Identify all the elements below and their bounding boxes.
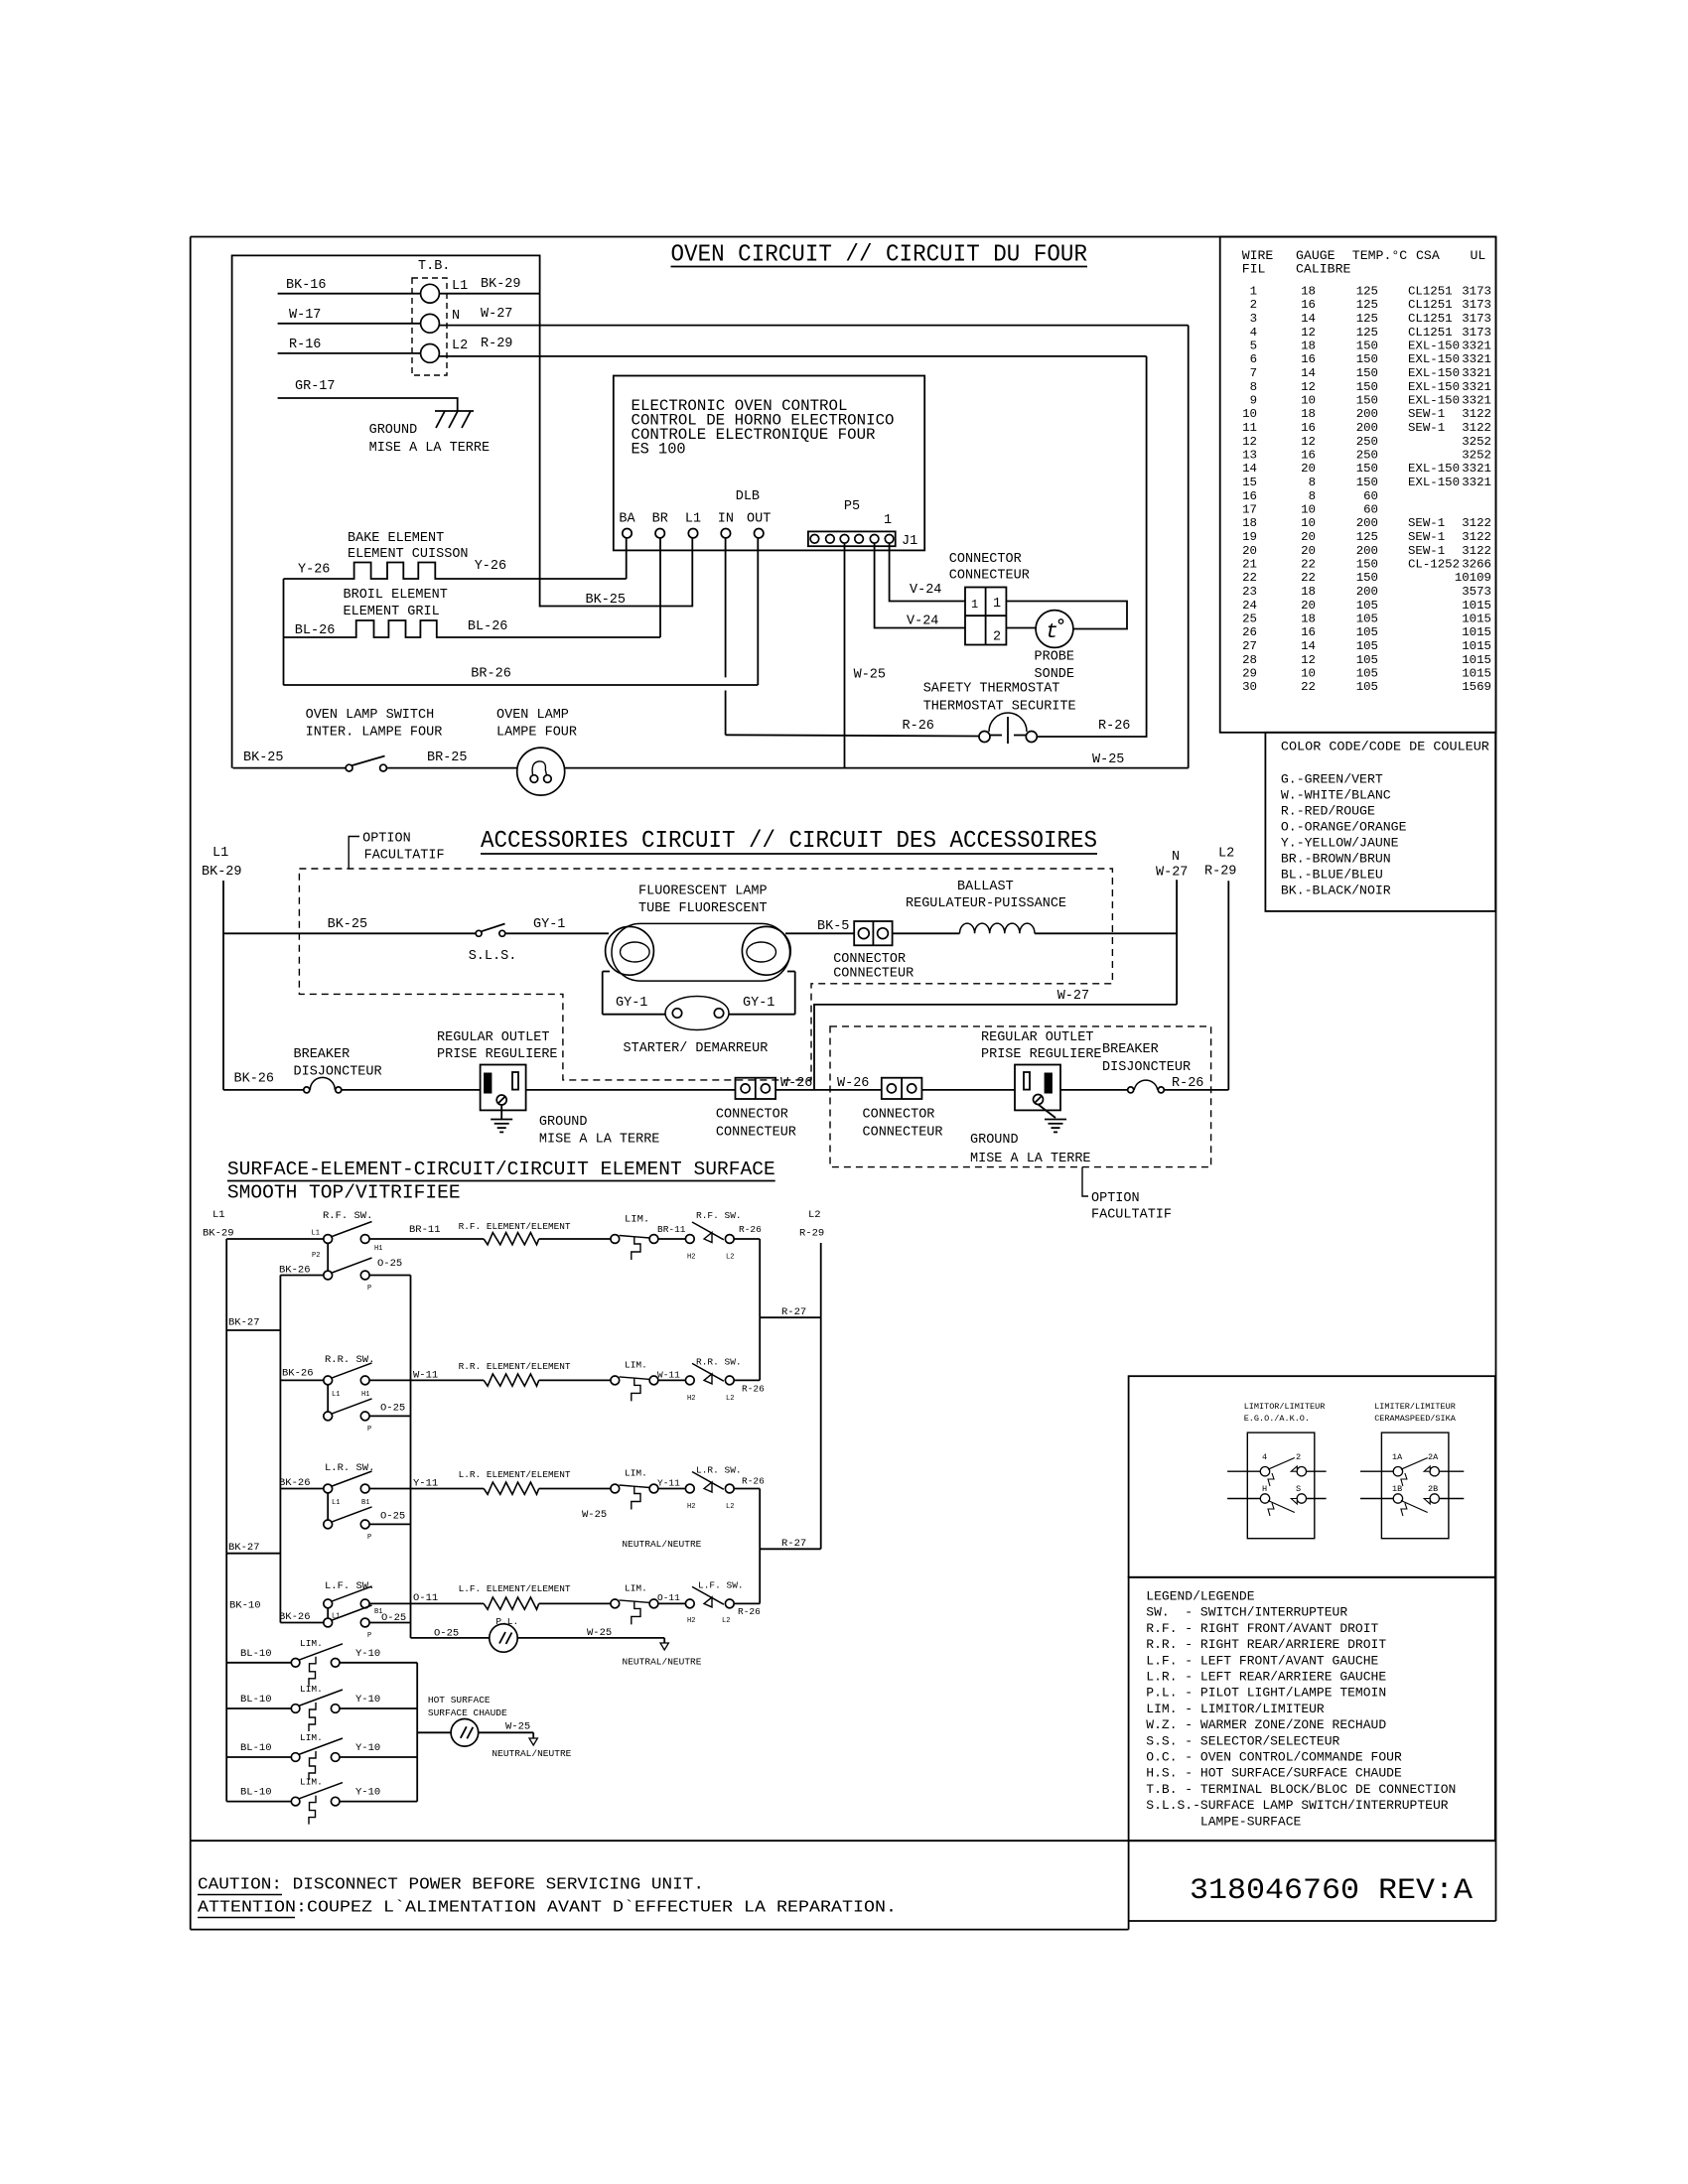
svg-text:12: 12 <box>1301 380 1316 394</box>
svg-text:L1: L1 <box>312 1230 320 1238</box>
svg-text:BAKE ELEMENT: BAKE ELEMENT <box>348 531 444 546</box>
svg-text:318046760 REV:A: 318046760 REV:A <box>1190 1874 1473 1908</box>
svg-text:22: 22 <box>1301 558 1316 572</box>
svg-text:7: 7 <box>1250 366 1257 380</box>
svg-text:CL-1252: CL-1252 <box>1408 558 1460 572</box>
wire BK-26 bus <box>279 1276 281 1623</box>
ground symbol <box>435 410 474 412</box>
svg-text:LIM.: LIM. <box>625 1583 647 1594</box>
svg-text:1015: 1015 <box>1462 639 1491 653</box>
svg-text:ACCESSORIES CIRCUIT // CIRCUIT: ACCESSORIES CIRCUIT // CIRCUIT DES ACCES… <box>481 828 1097 855</box>
dashed option box right <box>830 1026 1211 1167</box>
svg-text:14: 14 <box>1301 639 1316 653</box>
svg-text:BL-26: BL-26 <box>295 623 336 638</box>
svg-text:L1: L1 <box>212 1209 225 1221</box>
svg-text:S: S <box>1296 1484 1301 1494</box>
svg-text:EXL-150: EXL-150 <box>1408 380 1460 394</box>
svg-text:BL-26: BL-26 <box>468 619 508 634</box>
svg-text:SONDE: SONDE <box>1035 667 1075 682</box>
limiter contact <box>611 1484 620 1493</box>
wire element to limiter L.F. <box>539 1602 611 1604</box>
svg-text:EXL-150: EXL-150 <box>1408 366 1460 380</box>
svg-text:125: 125 <box>1356 326 1378 340</box>
dashed option boundary <box>299 869 1112 1080</box>
svg-text:BR.-BROWN/BRUN: BR.-BROWN/BRUN <box>1281 852 1391 867</box>
svg-text:TEMP.°C: TEMP.°C <box>1352 248 1407 263</box>
svg-text:t: t <box>1046 621 1058 644</box>
svg-text:150: 150 <box>1356 352 1378 366</box>
svg-text:8: 8 <box>1250 380 1257 394</box>
svg-text:105: 105 <box>1356 667 1378 681</box>
wire BL-26 to BR terminal <box>659 538 661 637</box>
svg-text:R.R. - RIGHT REAR/ARRIERE DROI: R.R. - RIGHT REAR/ARRIERE DROIT <box>1146 1637 1386 1652</box>
svg-text:10: 10 <box>1301 503 1316 517</box>
svg-text:105: 105 <box>1356 625 1378 639</box>
terminal L2 <box>421 344 440 363</box>
svg-text:EXL-150: EXL-150 <box>1408 352 1460 366</box>
svg-text:LIM.: LIM. <box>300 1638 323 1649</box>
svg-text:BK-27: BK-27 <box>228 1317 260 1329</box>
svg-text:Y.-YELLOW/JAUNE: Y.-YELLOW/JAUNE <box>1281 836 1399 851</box>
regular outlet left <box>481 1065 526 1111</box>
resistor R.F. element <box>484 1233 539 1245</box>
svg-text:LIM.: LIM. <box>300 1684 323 1695</box>
svg-text:S.S. - SELECTOR/SELECTEUR: S.S. - SELECTOR/SELECTEUR <box>1146 1733 1339 1748</box>
svg-text:200: 200 <box>1356 516 1378 530</box>
svg-text:150: 150 <box>1356 476 1378 489</box>
svg-text:GR-17: GR-17 <box>295 379 336 394</box>
svg-text:105: 105 <box>1356 599 1378 613</box>
svg-text:Y-10: Y-10 <box>355 1648 380 1660</box>
svg-text:12: 12 <box>1301 435 1316 449</box>
svg-text:LIM.: LIM. <box>300 1732 323 1743</box>
svg-text:EXL-150: EXL-150 <box>1408 340 1460 353</box>
limiter component EGO <box>1247 1433 1315 1539</box>
svg-text:BK-29: BK-29 <box>203 1228 234 1240</box>
svg-text:3122: 3122 <box>1462 530 1491 544</box>
svg-text:L2: L2 <box>1218 847 1234 862</box>
wire element to limiter R.R. <box>539 1379 611 1381</box>
svg-text:BK-29: BK-29 <box>481 277 521 292</box>
svg-text:T.B.: T.B. <box>418 259 450 274</box>
svg-text:OVEN LAMP: OVEN LAMP <box>496 708 569 723</box>
svg-text:GY-1: GY-1 <box>616 996 647 1011</box>
svg-text:150: 150 <box>1356 394 1378 408</box>
breaker right <box>1128 1087 1134 1093</box>
svg-text:H1: H1 <box>374 1245 382 1253</box>
svg-text:10: 10 <box>1242 407 1257 421</box>
svg-text:O-11: O-11 <box>657 1592 680 1603</box>
svg-text:BK-26: BK-26 <box>234 1072 275 1087</box>
svg-text:O.-ORANGE/ORANGE: O.-ORANGE/ORANGE <box>1281 820 1407 835</box>
svg-text:BR: BR <box>652 512 668 527</box>
svg-text:3321: 3321 <box>1462 394 1491 408</box>
svg-text:CONNECTOR: CONNECTOR <box>949 552 1022 567</box>
svg-text:O-25: O-25 <box>380 1403 405 1415</box>
wire R-29 bus surface <box>820 1243 822 1549</box>
safety thermostat <box>989 713 1027 732</box>
svg-text:W-26: W-26 <box>837 1076 869 1091</box>
svg-text:CL1251: CL1251 <box>1408 285 1453 299</box>
svg-text:R.F. SW.: R.F. SW. <box>696 1210 742 1221</box>
svg-text:SURFACE CHAUDE: SURFACE CHAUDE <box>428 1707 507 1718</box>
svg-text:CONNECTEUR: CONNECTEUR <box>833 967 914 982</box>
switch R.F. P <box>324 1271 333 1280</box>
svg-text:L1: L1 <box>685 512 701 527</box>
svg-text:L.R. ELEMENT/ELEMENT: L.R. ELEMENT/ELEMENT <box>459 1469 571 1480</box>
svg-text:19: 19 <box>1242 530 1257 544</box>
svg-text:PRISE REGULIERE: PRISE REGULIERE <box>981 1047 1102 1062</box>
svg-text:3321: 3321 <box>1462 476 1491 489</box>
wire to connector W-26 <box>526 1089 736 1091</box>
svg-text:3122: 3122 <box>1462 421 1491 435</box>
svg-text:LIM.: LIM. <box>625 1468 647 1479</box>
svg-text:16: 16 <box>1301 352 1316 366</box>
svg-text:Y-26: Y-26 <box>298 562 330 577</box>
svg-text:L2: L2 <box>808 1209 821 1221</box>
svg-text:150: 150 <box>1356 558 1378 572</box>
svg-text:H2: H2 <box>687 1617 695 1625</box>
svg-text:15: 15 <box>1242 476 1257 489</box>
svg-text:18: 18 <box>1301 285 1316 299</box>
svg-text:ELEMENT CUISSON: ELEMENT CUISSON <box>348 547 469 562</box>
svg-text:3252: 3252 <box>1462 435 1491 449</box>
resistor L.R. element <box>484 1482 539 1494</box>
svg-text:R-26: R-26 <box>742 1476 765 1487</box>
svg-text:R.F. ELEMENT/ELEMENT: R.F. ELEMENT/ELEMENT <box>459 1221 571 1232</box>
svg-text:13: 13 <box>1242 449 1257 463</box>
svg-text:18: 18 <box>1301 585 1316 599</box>
svg-text:3173: 3173 <box>1462 326 1491 340</box>
svg-text:NEUTRAL/NEUTRE: NEUTRAL/NEUTRE <box>623 1657 702 1668</box>
svg-text:BREAKER: BREAKER <box>294 1047 351 1062</box>
svg-text:1: 1 <box>993 597 1001 612</box>
wire L.F. L1-P link <box>327 1608 329 1618</box>
svg-text:TUBE FLUORESCENT: TUBE FLUORESCENT <box>638 901 768 916</box>
svg-text:H2: H2 <box>687 1503 695 1511</box>
wire Y-26 to BA terminal <box>626 538 628 579</box>
svg-text:N: N <box>1172 850 1180 865</box>
svg-text:BL.-BLUE/BLEU: BL.-BLUE/BLEU <box>1281 868 1383 883</box>
svg-text:105: 105 <box>1356 653 1378 667</box>
svg-text:14: 14 <box>1242 462 1257 476</box>
wire L.R. P to O-25 bus <box>369 1523 410 1525</box>
switch L.F. upper <box>324 1599 333 1608</box>
svg-text:12: 12 <box>1242 435 1257 449</box>
svg-text:GROUND: GROUND <box>539 1115 588 1130</box>
svg-text:18: 18 <box>1301 407 1316 421</box>
svg-text:R.R. SW.: R.R. SW. <box>696 1357 742 1368</box>
svg-text:BL-10: BL-10 <box>240 1694 272 1706</box>
svg-text:ELEMENT GRIL: ELEMENT GRIL <box>344 605 440 619</box>
svg-text:P5: P5 <box>844 499 860 514</box>
svg-text:3321: 3321 <box>1462 462 1491 476</box>
svg-text:3: 3 <box>1250 312 1257 326</box>
svg-text:125: 125 <box>1356 285 1378 299</box>
svg-text:1015: 1015 <box>1462 625 1491 639</box>
wire to right outlet <box>921 1089 1015 1091</box>
label OPTION top <box>349 837 359 870</box>
switch right contacts <box>685 1376 694 1385</box>
wire ballast to W-27 <box>1035 932 1177 934</box>
svg-text:2: 2 <box>1250 298 1257 312</box>
svg-text:R.F. SW.: R.F. SW. <box>323 1210 372 1222</box>
svg-text:150: 150 <box>1356 366 1378 380</box>
svg-text:L2: L2 <box>726 1254 734 1262</box>
svg-text:16: 16 <box>1242 489 1257 503</box>
svg-text:R-26: R-26 <box>1172 1076 1203 1091</box>
svg-text:16: 16 <box>1301 625 1316 639</box>
svg-text:10: 10 <box>1301 394 1316 408</box>
svg-text:200: 200 <box>1356 421 1378 435</box>
svg-text:L.F. SW.: L.F. SW. <box>698 1580 744 1591</box>
svg-text:3173: 3173 <box>1462 285 1491 299</box>
svg-text:J1: J1 <box>902 534 917 549</box>
svg-text:1015: 1015 <box>1462 667 1491 681</box>
svg-text:CL1251: CL1251 <box>1408 298 1453 312</box>
svg-text:150: 150 <box>1356 340 1378 353</box>
wire element to limiter L.R. <box>539 1488 611 1490</box>
svg-text:BK-29: BK-29 <box>202 865 242 880</box>
svg-text:10: 10 <box>1301 667 1316 681</box>
svg-text:P: P <box>367 1534 371 1542</box>
svg-text:BK-25: BK-25 <box>328 917 368 932</box>
svg-text:26: 26 <box>1242 625 1257 639</box>
neutral arrow pilot <box>663 1638 665 1643</box>
svg-text:150: 150 <box>1356 571 1378 585</box>
svg-text:L1: L1 <box>332 1391 340 1399</box>
svg-text:3321: 3321 <box>1462 340 1491 353</box>
svg-text:OPTION: OPTION <box>362 832 411 847</box>
wire to right breaker <box>1060 1089 1128 1091</box>
svg-text:O-25: O-25 <box>380 1511 405 1523</box>
svg-text:9: 9 <box>1250 394 1257 408</box>
svg-text:R.-RED/ROUGE: R.-RED/ROUGE <box>1281 804 1375 819</box>
svg-text:L1: L1 <box>332 1499 340 1507</box>
svg-text:REGULAR OUTLET: REGULAR OUTLET <box>437 1030 549 1045</box>
svg-text:W-26: W-26 <box>780 1076 812 1091</box>
svg-text:2: 2 <box>1296 1452 1301 1462</box>
svg-text:GY-1: GY-1 <box>533 917 565 932</box>
svg-text:18: 18 <box>1242 516 1257 530</box>
svg-text:3266: 3266 <box>1462 558 1491 572</box>
svg-text:PROBE: PROBE <box>1035 650 1075 665</box>
svg-text:P2: P2 <box>312 1252 320 1260</box>
wire between connectors <box>775 1089 882 1091</box>
svg-text:E.G.O./A.K.O.: E.G.O./A.K.O. <box>1244 1414 1310 1424</box>
svg-text:W-27: W-27 <box>1156 866 1188 881</box>
svg-text:GY-1: GY-1 <box>743 996 774 1011</box>
svg-text:BL-10: BL-10 <box>240 1787 272 1799</box>
svg-text:BR-25: BR-25 <box>427 751 468 765</box>
wire bus to R.F. P switch <box>280 1275 324 1277</box>
svg-text:W-27: W-27 <box>481 307 512 322</box>
svg-text:R-29: R-29 <box>799 1228 824 1240</box>
svg-text:T.B. - TERMINAL BLOCK/BLOC DE: T.B. - TERMINAL BLOCK/BLOC DE CONNECTION <box>1146 1782 1456 1797</box>
svg-text:H1: H1 <box>361 1391 369 1399</box>
svg-text:P: P <box>367 1426 371 1433</box>
limiter contact <box>611 1235 620 1244</box>
switch R.R. P <box>324 1412 333 1421</box>
svg-text:FIL: FIL <box>1242 262 1266 277</box>
svg-text:11: 11 <box>1242 421 1257 435</box>
switch S.L.S. <box>476 930 482 936</box>
pilot light P.L. <box>490 1624 517 1652</box>
wire L.R. L1-P link <box>327 1493 329 1520</box>
svg-text:OUT: OUT <box>747 512 771 527</box>
wire R.F. to R-27 <box>759 1239 761 1380</box>
svg-text:5: 5 <box>1250 340 1257 353</box>
wire IN to R-26 with crossover gap <box>725 538 727 678</box>
svg-text:H2: H2 <box>687 1395 695 1403</box>
svg-text:R-26: R-26 <box>742 1384 765 1395</box>
EOC terminals BA BR L1 IN OUT <box>623 529 632 538</box>
svg-text:B1: B1 <box>361 1499 369 1507</box>
switch right contacts <box>685 1599 694 1608</box>
svg-text:L2: L2 <box>722 1617 730 1625</box>
svg-text:1B: 1B <box>1392 1484 1402 1494</box>
svg-text:3321: 3321 <box>1462 380 1491 394</box>
svg-text:20: 20 <box>1242 544 1257 558</box>
svg-text:REGULAR OUTLET: REGULAR OUTLET <box>981 1030 1093 1045</box>
svg-text:1: 1 <box>884 513 892 528</box>
svg-text:W-25: W-25 <box>582 1509 607 1521</box>
svg-text:SAFETY THERMOSTAT: SAFETY THERMOSTAT <box>923 682 1060 697</box>
wire L.F. P to O-25 bus <box>369 1622 410 1624</box>
wire O-25 bus <box>410 1276 412 1638</box>
svg-text:G.-GREEN/VERT: G.-GREEN/VERT <box>1281 772 1383 787</box>
svg-text:DLB: DLB <box>736 489 760 504</box>
svg-text:S.L.S.-SURFACE LAMP SWITCH/INT: S.L.S.-SURFACE LAMP SWITCH/INTERRUPTEUR <box>1146 1798 1448 1813</box>
svg-text:16: 16 <box>1301 449 1316 463</box>
svg-text:125: 125 <box>1356 312 1378 326</box>
svg-text:EXL-150: EXL-150 <box>1408 462 1460 476</box>
svg-text:105: 105 <box>1356 639 1378 653</box>
svg-text:30: 30 <box>1242 680 1257 694</box>
switch L.R. upper <box>324 1484 333 1493</box>
ground left outlet <box>500 1105 502 1120</box>
starter enclosure <box>602 972 604 1015</box>
svg-text:O.C. - OVEN CONTROL/COMMANDE F: O.C. - OVEN CONTROL/COMMANDE FOUR <box>1146 1750 1402 1765</box>
svg-text:LAMPE-SURFACE: LAMPE-SURFACE <box>1146 1814 1301 1829</box>
svg-text:P: P <box>367 1285 371 1293</box>
oven lamp switch <box>346 764 352 771</box>
svg-text:150: 150 <box>1356 462 1378 476</box>
svg-text:W-25: W-25 <box>854 668 886 683</box>
wire BK-29 loop to left bus <box>232 255 540 767</box>
svg-text:200: 200 <box>1356 544 1378 558</box>
svg-text:250: 250 <box>1356 449 1378 463</box>
svg-text:R-27: R-27 <box>781 1306 806 1318</box>
svg-text:3122: 3122 <box>1462 516 1491 530</box>
probe <box>1036 611 1073 648</box>
svg-text:LAMPE FOUR: LAMPE FOUR <box>496 726 577 741</box>
breaker left <box>304 1087 310 1093</box>
ballast coil <box>960 923 1035 933</box>
svg-text:H.S. - HOT SURFACE/SURFACE CHA: H.S. - HOT SURFACE/SURFACE CHAUDE <box>1146 1766 1402 1781</box>
terminal L1 <box>421 284 440 303</box>
fluorescent lamp <box>612 923 790 981</box>
svg-text:105: 105 <box>1356 613 1378 626</box>
svg-text:20: 20 <box>1301 462 1316 476</box>
svg-text:28: 28 <box>1242 653 1257 667</box>
svg-text:R-26: R-26 <box>738 1606 761 1617</box>
svg-text:FLUORESCENT LAMP: FLUORESCENT LAMP <box>638 885 768 899</box>
svg-text:BK-26: BK-26 <box>279 1611 311 1623</box>
svg-text:SEW-1: SEW-1 <box>1408 407 1445 421</box>
svg-text:200: 200 <box>1356 407 1378 421</box>
svg-text:29: 29 <box>1242 667 1257 681</box>
wire W-27 vertical <box>1176 880 1178 1005</box>
svg-text:MISE A LA TERRE: MISE A LA TERRE <box>369 441 491 456</box>
svg-text:W-11: W-11 <box>657 1370 680 1381</box>
svg-text:1015: 1015 <box>1462 653 1491 667</box>
svg-text:DISJONCTEUR: DISJONCTEUR <box>294 1065 382 1080</box>
svg-text:HOT SURFACE: HOT SURFACE <box>428 1695 491 1706</box>
svg-text:INTER. LAMPE FOUR: INTER. LAMPE FOUR <box>306 726 443 741</box>
resistor L.F. element <box>484 1597 539 1609</box>
svg-text:PRISE REGULIERE: PRISE REGULIERE <box>437 1047 558 1062</box>
svg-text:BR-26: BR-26 <box>471 667 511 682</box>
wire N drop <box>1188 326 1190 768</box>
svg-text:OVEN LAMP SWITCH: OVEN LAMP SWITCH <box>306 708 435 723</box>
svg-text:3122: 3122 <box>1462 407 1491 421</box>
svg-text:250: 250 <box>1356 435 1378 449</box>
svg-text:4: 4 <box>1262 1452 1267 1462</box>
svg-text:R.R. ELEMENT/ELEMENT: R.R. ELEMENT/ELEMENT <box>459 1361 571 1372</box>
svg-text:1569: 1569 <box>1462 680 1491 694</box>
wire bus to L.R. switch <box>280 1488 324 1490</box>
page border frame <box>191 236 1496 238</box>
color code box <box>1265 733 1495 911</box>
svg-text:6: 6 <box>1250 352 1257 366</box>
wire L1 bus accessories <box>222 881 224 1090</box>
wire R.R. P to O-25 bus <box>369 1415 410 1417</box>
wire O-25 to pilot light <box>411 1637 490 1639</box>
svg-text:GROUND: GROUND <box>970 1133 1019 1148</box>
switch R.R. upper <box>324 1376 333 1385</box>
svg-text:R-29: R-29 <box>1204 865 1236 880</box>
svg-text:Y-11: Y-11 <box>657 1478 680 1489</box>
svg-text:14: 14 <box>1301 366 1316 380</box>
element left bus <box>283 579 285 685</box>
svg-text:H2: H2 <box>687 1254 695 1262</box>
wire to ballast <box>893 932 960 934</box>
terminal block dashed box <box>412 278 447 375</box>
svg-text:BK-10: BK-10 <box>229 1600 261 1612</box>
svg-text:ES 100: ES 100 <box>632 441 686 459</box>
svg-text:CONNECTEUR: CONNECTEUR <box>863 1126 943 1141</box>
switch right contacts <box>685 1484 694 1493</box>
svg-text:R-26: R-26 <box>1098 719 1130 734</box>
svg-text:O-25: O-25 <box>377 1258 402 1270</box>
svg-text:2B: 2B <box>1428 1484 1438 1494</box>
svg-text:OPTION: OPTION <box>1091 1191 1140 1206</box>
svg-text:23: 23 <box>1242 585 1257 599</box>
svg-text:SEW-1: SEW-1 <box>1408 421 1445 435</box>
svg-text:ATTENTION:COUPEZ L`ALIMENTATIO: ATTENTION:COUPEZ L`ALIMENTATION AVANT D`… <box>198 1898 897 1917</box>
svg-text:LIM. - LIMITOR/LIMITEUR: LIM. - LIMITOR/LIMITEUR <box>1146 1702 1325 1716</box>
svg-text:R-26: R-26 <box>739 1224 762 1235</box>
svg-text:MISE A LA TERRE: MISE A LA TERRE <box>970 1152 1091 1166</box>
svg-text:10109: 10109 <box>1455 571 1491 585</box>
svg-text:L.F. - LEFT FRONT/AVANT GAUCHE: L.F. - LEFT FRONT/AVANT GAUCHE <box>1146 1653 1378 1668</box>
svg-text:L1: L1 <box>452 279 468 294</box>
svg-text:16: 16 <box>1301 421 1316 435</box>
svg-text:22: 22 <box>1242 571 1257 585</box>
svg-text:L.R. SW.: L.R. SW. <box>696 1465 742 1476</box>
svg-text:BROIL ELEMENT: BROIL ELEMENT <box>344 588 448 603</box>
